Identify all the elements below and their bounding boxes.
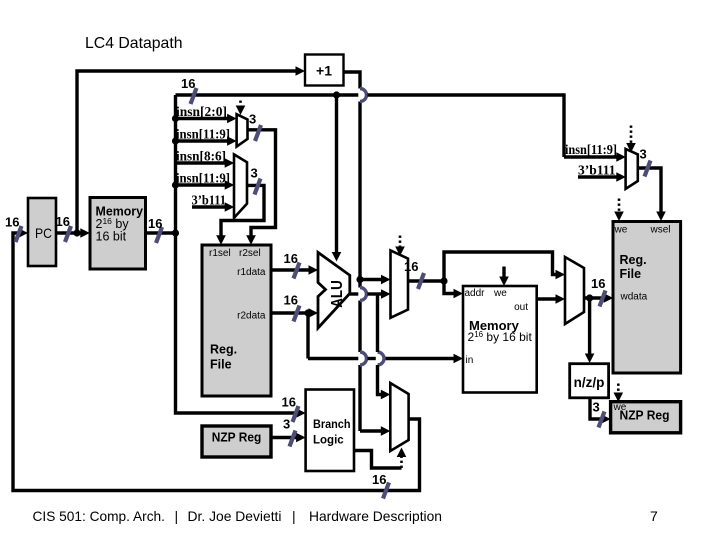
svg-text:16: 16 bbox=[148, 216, 162, 231]
svg-text:insn[8:6]: insn[8:6] bbox=[176, 149, 226, 164]
svg-text:File: File bbox=[210, 358, 232, 372]
svg-text:16: 16 bbox=[591, 276, 605, 291]
svg-text:CIS 501: Comp. Arch.: CIS 501: Comp. Arch. bbox=[33, 508, 166, 524]
svg-text:insn[11:9]: insn[11:9] bbox=[176, 127, 230, 142]
svg-text:r2sel: r2sel bbox=[239, 248, 261, 259]
svg-text:out: out bbox=[514, 302, 528, 313]
svg-text:3: 3 bbox=[283, 417, 290, 432]
svg-text:16: 16 bbox=[5, 215, 19, 230]
svg-text:16: 16 bbox=[181, 76, 195, 91]
svg-text:Reg.: Reg. bbox=[620, 253, 647, 267]
svg-text:insn[11:9]: insn[11:9] bbox=[565, 142, 617, 157]
svg-text:LC4 Datapath: LC4 Datapath bbox=[85, 35, 183, 52]
svg-text:Logic: Logic bbox=[313, 435, 344, 447]
svg-text:Reg.: Reg. bbox=[210, 343, 237, 357]
svg-text:PC: PC bbox=[35, 225, 52, 241]
svg-text:+1: +1 bbox=[316, 63, 332, 79]
svg-text:3: 3 bbox=[249, 112, 256, 127]
svg-text:we: we bbox=[493, 288, 507, 299]
svg-text:16: 16 bbox=[284, 293, 298, 308]
svg-text:16: 16 bbox=[282, 395, 296, 410]
svg-text:r1sel: r1sel bbox=[209, 248, 231, 259]
svg-text:insn[2:0]: insn[2:0] bbox=[176, 104, 227, 119]
svg-text:Dr. Joe Devietti: Dr. Joe Devietti bbox=[188, 508, 282, 524]
svg-text:r2data: r2data bbox=[237, 311, 266, 322]
svg-text:7: 7 bbox=[650, 508, 658, 524]
svg-text:wsel: wsel bbox=[650, 225, 671, 236]
svg-text:we: we bbox=[614, 225, 628, 236]
svg-text:16: 16 bbox=[284, 251, 298, 266]
svg-text:File: File bbox=[620, 267, 642, 281]
svg-text:insn[11:9]: insn[11:9] bbox=[176, 171, 230, 186]
svg-text:3: 3 bbox=[251, 166, 258, 181]
svg-text:Branch: Branch bbox=[313, 419, 351, 431]
svg-text:ALU: ALU bbox=[329, 280, 346, 308]
svg-text:3’b111: 3’b111 bbox=[192, 193, 227, 208]
svg-text:addr: addr bbox=[465, 288, 486, 299]
svg-text:NZP Reg: NZP Reg bbox=[620, 409, 670, 423]
svg-text:|: | bbox=[175, 508, 179, 524]
svg-text:NZP Reg: NZP Reg bbox=[212, 431, 262, 445]
svg-text:3: 3 bbox=[640, 147, 647, 162]
svg-text:16: 16 bbox=[372, 472, 386, 487]
svg-text:16: 16 bbox=[404, 259, 418, 274]
svg-text:|: | bbox=[292, 508, 296, 524]
svg-text:16: 16 bbox=[56, 214, 70, 229]
svg-text:3: 3 bbox=[593, 400, 600, 415]
svg-text:n/z/p: n/z/p bbox=[574, 375, 605, 390]
svg-text:3’b111: 3’b111 bbox=[578, 163, 616, 178]
svg-text:r1data: r1data bbox=[237, 267, 266, 278]
svg-text:in: in bbox=[466, 355, 474, 366]
svg-text:wdata: wdata bbox=[620, 292, 648, 303]
svg-text:16 bit: 16 bit bbox=[96, 230, 127, 244]
svg-text:Hardware Description: Hardware Description bbox=[309, 508, 442, 524]
